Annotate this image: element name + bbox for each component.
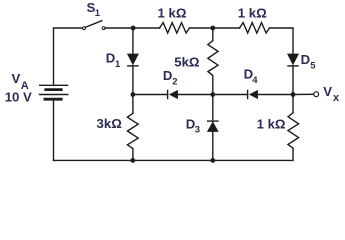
label S1 [87, 0, 101, 19]
wire middle row: D4 to right junction [258, 94, 293, 96]
svg-text:10 V: 10 V [5, 90, 32, 105]
svg-text:D: D [163, 68, 173, 83]
svg-text:V: V [12, 71, 21, 86]
svg-text:3kΩ: 3kΩ [97, 116, 123, 131]
diode D1 triangle (pointing down) [127, 54, 139, 66]
switch S1 blade [85, 21, 102, 28]
wire column D1: top junction down to D1 [132, 28, 134, 54]
diode D2 triangle (pointing left) [169, 90, 178, 99]
battery VA long plate top [40, 84, 68, 86]
diode D4 triangle (pointing left) [249, 90, 258, 99]
diode D4 cathode bar [247, 90, 249, 100]
wire column center: D3 to bottom rail [212, 132, 214, 161]
wire column D1: 3k to bottom rail [132, 149, 134, 161]
resistor 1k top-left zigzag [160, 23, 190, 33]
resistor 3k vertical zigzag [127, 113, 138, 148]
svg-text:V: V [323, 84, 332, 99]
junction node top-left (D1 column / top rail) [131, 26, 136, 31]
wire column D1: D1 to middle junction to 3k resistor [132, 66, 134, 114]
battery VA long plate 2 [40, 94, 68, 96]
svg-text:1 kΩ: 1 kΩ [158, 6, 187, 21]
svg-text:4: 4 [252, 75, 258, 86]
wire right column: D5 to middle row [292, 66, 294, 95]
resistor 1k bottom-right vertical zigzag [288, 113, 299, 148]
switch S1 right contact circle [102, 27, 105, 30]
label D4 [244, 67, 259, 86]
svg-text:1 kΩ: 1 kΩ [257, 116, 286, 131]
wire column center: 5k to middle 4-way junction down to D3 [212, 76, 214, 122]
diode D2 cathode bar [167, 90, 169, 100]
battery VA short thick plate 2 [45, 98, 61, 101]
label D3 [186, 117, 200, 136]
svg-text:1: 1 [115, 59, 121, 70]
wire top rail: R1 to center node [190, 27, 240, 29]
diode D1 cathode bar [127, 65, 139, 67]
svg-text:D: D [106, 51, 116, 66]
label D5 [301, 52, 317, 71]
wire middle row: D2 to center junction [178, 94, 213, 96]
svg-text:5kΩ: 5kΩ [174, 54, 200, 69]
svg-text:5: 5 [310, 60, 316, 71]
battery VA short thick plate 1 [46, 88, 61, 91]
wire: right junction to Vx terminal [293, 93, 314, 95]
svg-text:2: 2 [172, 76, 177, 87]
wire middle row: D1 junction to D2 [133, 94, 168, 96]
svg-text:1 kΩ: 1 kΩ [238, 6, 267, 21]
svg-text:x: x [333, 92, 340, 104]
diode D3 cathode bar [207, 120, 219, 122]
label D2 [163, 68, 178, 87]
wire top rail: R2 to top-right corner, down to D5 [270, 28, 293, 54]
diode D5 triangle (pointing down) [287, 54, 299, 66]
wire column center: top junction down to 5k [212, 28, 214, 41]
diode D5 cathode bar [287, 65, 299, 67]
wire top rail: switch to resistor R1 [105, 27, 160, 29]
label VA [12, 71, 29, 92]
label Vx [323, 84, 340, 104]
resistor 1k top-right zigzag [240, 23, 270, 33]
junction node bottom-left rail [130, 158, 135, 163]
wire middle row: center junction to D4 [213, 94, 248, 96]
svg-text:1: 1 [95, 8, 101, 19]
resistor 5k vertical zigzag [208, 41, 218, 76]
junction node middle-center 4-way [210, 92, 215, 97]
wire left column: battery bottom down to bottom rail [53, 100, 55, 160]
junction node bottom-center rail [210, 158, 215, 163]
diode D3 triangle (pointing up) [207, 121, 219, 132]
switch S1 left contact circle [83, 27, 86, 30]
terminal Vx open circle [314, 92, 319, 97]
wire left column: battery top up to top rail [54, 28, 84, 85]
svg-text:D: D [301, 52, 311, 67]
junction node middle-right (D5 / D4 / Vx / 1k) [291, 92, 296, 97]
junction node top-center (5k column / top rail) [210, 26, 215, 31]
wire right column: 1k to bottom rail corner [54, 148, 294, 160]
svg-text:3: 3 [195, 125, 200, 136]
label D1 [106, 51, 121, 70]
wire right column: junction down to 1k resistor [292, 95, 294, 113]
junction node middle-left (D1 / D2 / 3k) [131, 92, 136, 97]
